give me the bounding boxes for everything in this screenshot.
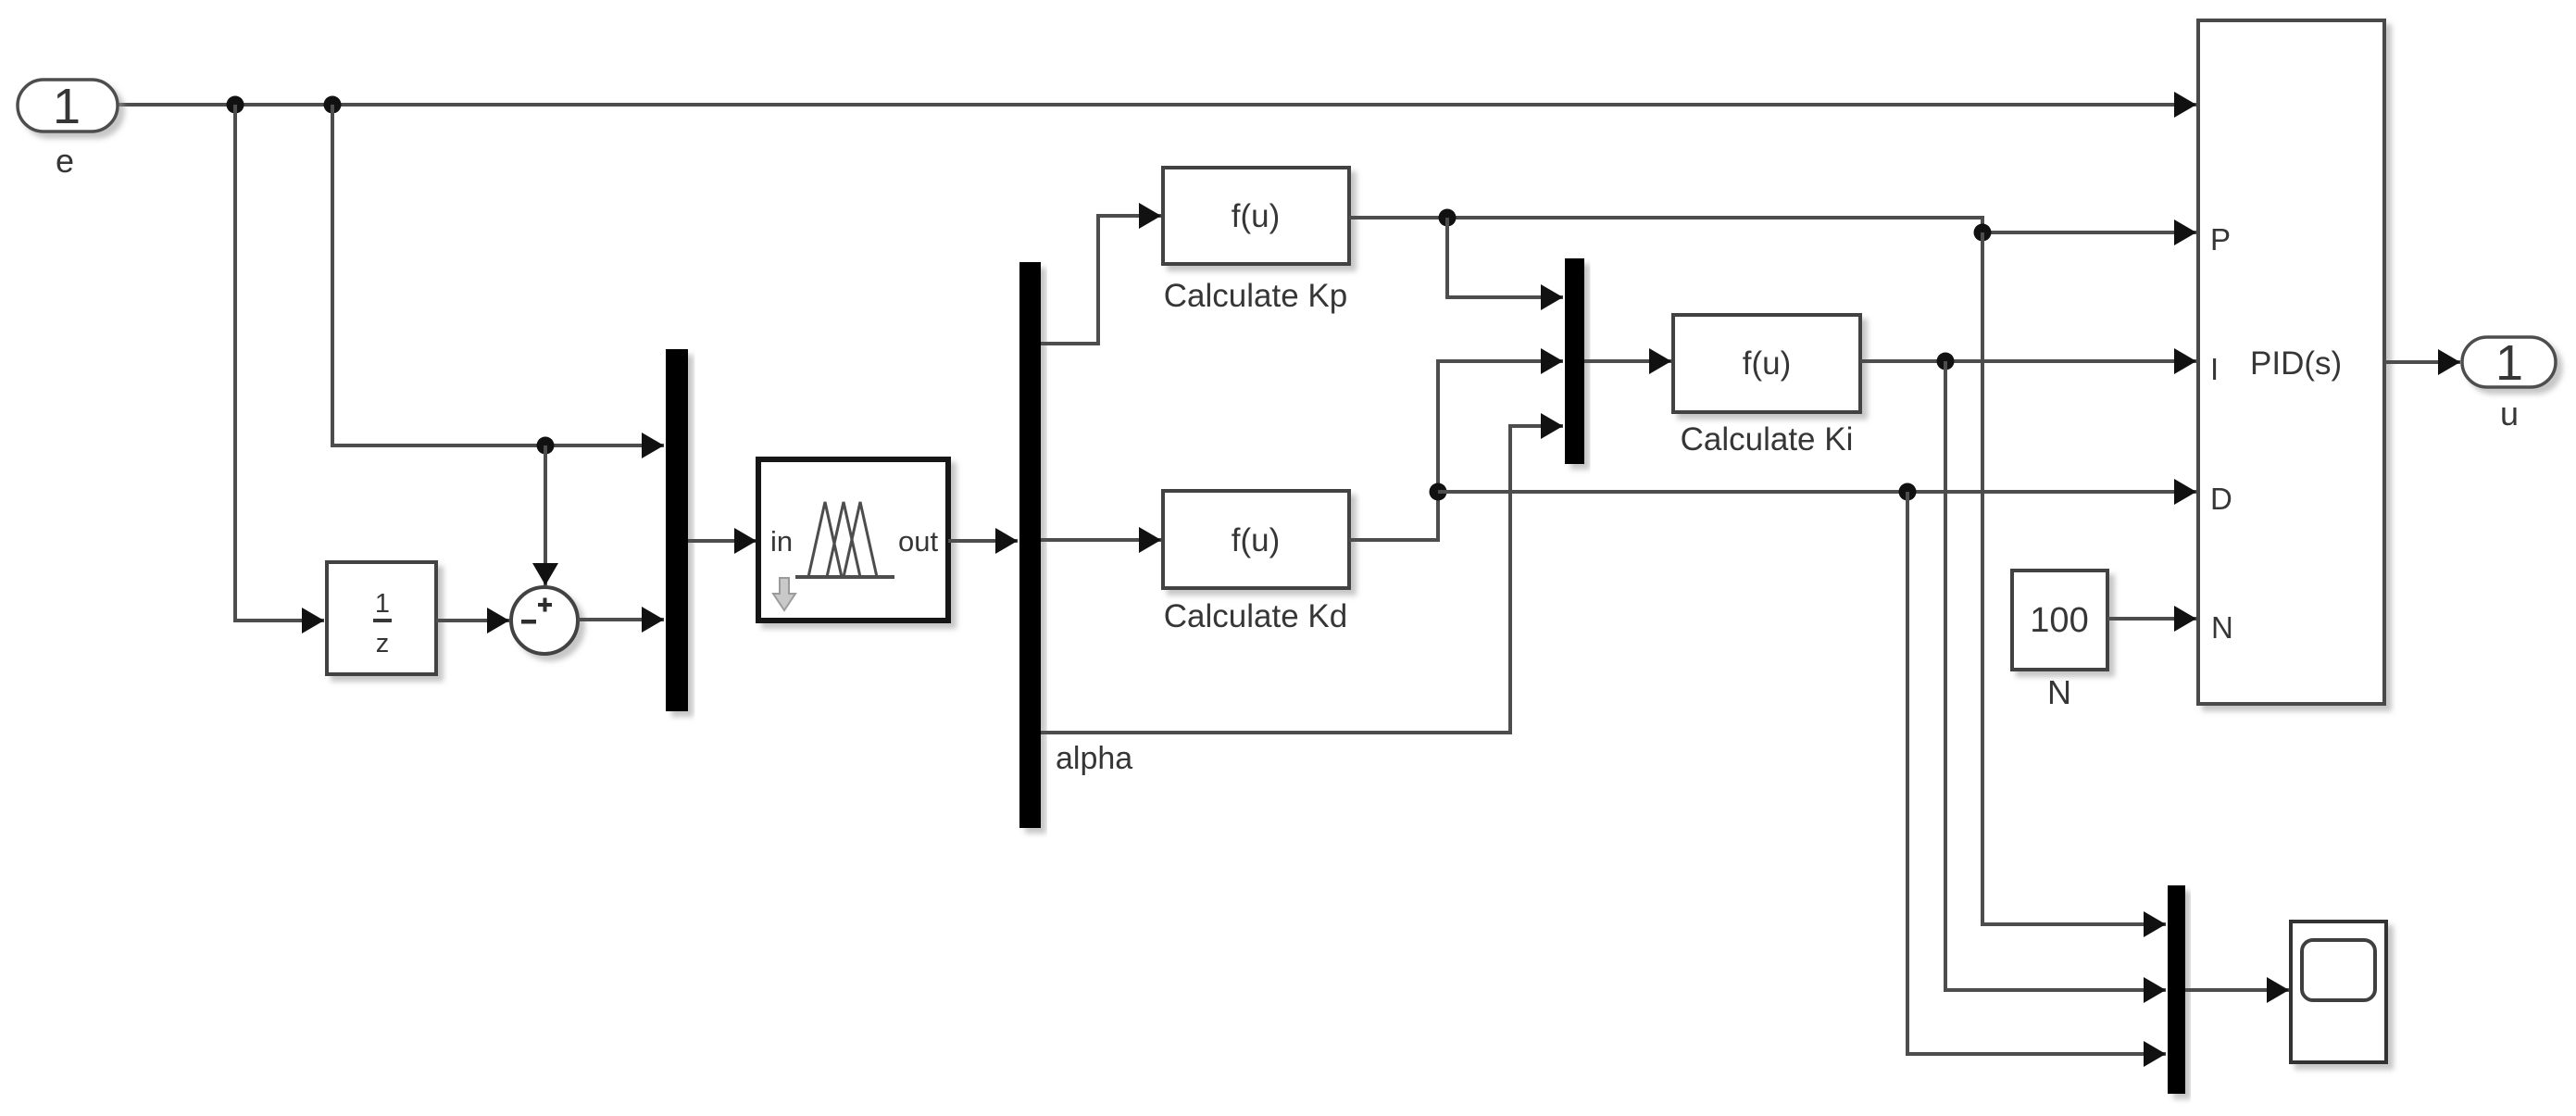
node junction on e line 1: [227, 96, 244, 114]
block constant 100: [2012, 571, 2107, 670]
wire D line to PID D: [1438, 490, 2196, 494]
node junction on e line 2: [324, 96, 342, 114]
wire fuzzy out to demux: [948, 539, 1018, 543]
svg-text:1: 1: [2495, 335, 2523, 391]
svg-text:Calculate Ki: Calculate Ki: [1681, 421, 1854, 458]
gray download arrow icon: [773, 578, 795, 610]
node junction P scope branch: [1974, 224, 1992, 242]
node junction D scope branch: [1899, 483, 1917, 501]
block scope: [2291, 922, 2386, 1062]
wire e main line: [118, 103, 2196, 107]
block Calculate Kd f(u): [1163, 491, 1349, 588]
wire demux to Calculate Kp: [1041, 216, 1161, 344]
demux bar: [1019, 262, 1041, 828]
mux3 bar: [2168, 885, 2185, 1094]
wire I branch down to mux3: [1945, 361, 2166, 990]
block fuzzy logic controller: [758, 459, 948, 621]
svg-text:f(u): f(u): [1743, 345, 1792, 382]
node junction I scope branch: [1937, 353, 1955, 370]
svg-text:in: in: [770, 525, 793, 558]
svg-text:z: z: [376, 629, 390, 658]
block Calculate Kp f(u): [1163, 168, 1349, 264]
wire mux2 out to Calculate Ki: [1584, 359, 1671, 363]
wire Kd out up to mux2 input2: [1349, 361, 1563, 540]
svg-text:alpha: alpha: [1056, 741, 1132, 776]
svg-text:N: N: [2211, 610, 2233, 645]
svg-text:u: u: [2500, 395, 2519, 433]
svg-text:f(u): f(u): [1232, 522, 1281, 558]
mux2 bar: [1565, 258, 1584, 464]
svg-text:f(u): f(u): [1232, 198, 1281, 234]
wire Kp out to PID P: [1349, 218, 2196, 232]
wire junction to sum top: [544, 445, 547, 585]
wire demux to Calculate Kd: [1041, 538, 1161, 542]
outport 1 (u): [2462, 335, 2556, 391]
wire 1/z out to sum: [436, 619, 509, 622]
svg-text:N: N: [2047, 673, 2071, 711]
svg-text:I: I: [2210, 352, 2219, 386]
wire mux1 out to fuzzy in: [688, 539, 757, 543]
membership functions icon: [795, 575, 894, 579]
wire mux3 out to scope: [2185, 988, 2289, 992]
svg-text:e: e: [56, 142, 74, 180]
wire Kp branch to mux2 input1: [1447, 218, 1563, 297]
wire alpha demux to mux2: [1041, 426, 1563, 733]
svg-text:out: out: [898, 525, 938, 558]
svg-text:Calculate Kp: Calculate Kp: [1164, 278, 1347, 314]
wire e to mux1 top: [332, 105, 664, 445]
svg-text:100: 100: [2030, 601, 2088, 640]
wire P branch down to mux3: [1982, 232, 2166, 924]
svg-text:D: D: [2210, 482, 2232, 516]
node junction Kd D branch: [1430, 483, 1447, 501]
wire 100 out to PID N: [2107, 617, 2196, 621]
svg-text:PID(s): PID(s): [2250, 345, 2342, 382]
wire sum out to mux1 bottom: [578, 618, 664, 621]
wire Ki out to PID I: [1860, 359, 2196, 363]
block PID(s): [2198, 20, 2384, 704]
svg-text:Calculate Kd: Calculate Kd: [1164, 598, 1347, 634]
svg-text:1: 1: [53, 79, 81, 134]
svg-text:1: 1: [375, 589, 390, 619]
wire e to 1/z: [235, 105, 324, 621]
svg-text:P: P: [2210, 222, 2231, 257]
inport 1 (e): [18, 79, 118, 134]
mux1 bar: [666, 349, 688, 711]
sum block: [511, 587, 578, 654]
node junction on mux1-top wire: [537, 437, 555, 455]
wire D branch down to mux3: [1907, 492, 2166, 1054]
block Calculate Ki f(u): [1673, 315, 1860, 412]
wire PID out to outport: [2384, 360, 2460, 364]
block 1/z unit delay: [327, 562, 436, 674]
node junction Kp branch: [1439, 209, 1457, 227]
